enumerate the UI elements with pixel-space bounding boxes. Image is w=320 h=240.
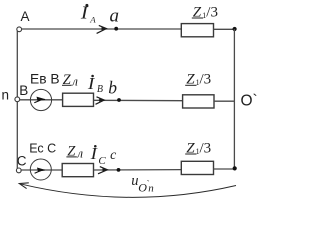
label Z1/3 (phase B): [185, 72, 211, 88]
node b (junction dot): [117, 98, 121, 102]
label Z1/3 (phase C): [185, 140, 211, 156]
resistor Z1/3 (phase C): [181, 161, 213, 174]
label İB: [87, 74, 103, 95]
junction dot at bus top: [233, 27, 237, 31]
resistor Z1/3 (phase A): [181, 24, 213, 37]
svg-text:n: n: [148, 183, 154, 195]
svg-text:л: л: [71, 74, 78, 89]
svg-text:B: B: [97, 84, 103, 95]
label Z1/3 (phase A): [192, 4, 218, 20]
svg-text:O`: O`: [241, 92, 258, 109]
wire: phase C from terminal to Zл box: [20, 169, 62, 171]
wire: phase C from Zл to Z1/3: [94, 169, 182, 171]
terminal C: [16, 168, 21, 173]
svg-text:/3: /3: [200, 72, 212, 88]
svg-text:A: A: [89, 14, 96, 24]
node a (junction dot): [114, 27, 118, 31]
svg-text:A: A: [21, 9, 30, 24]
label uO'n: [131, 173, 154, 195]
wire from Z1/3 phase B to bus: [214, 100, 234, 102]
resistor Z1/3 (phase B): [183, 95, 214, 108]
svg-text:л: л: [76, 146, 83, 161]
label İA: [80, 3, 97, 25]
svg-text:B: B: [19, 83, 28, 98]
node c (junction dot): [117, 168, 121, 172]
wire: phase B from Zл to Z1/3: [94, 99, 183, 101]
svg-text:Ес C: Ес C: [29, 141, 56, 155]
svg-text:Ев B: Ев B: [30, 72, 60, 87]
current arrow İB on wire: [96, 97, 105, 105]
EMF source EC (circle with arrow): [30, 159, 51, 180]
svg-text:C: C: [17, 153, 27, 168]
resistor Zл (phase C): [62, 164, 93, 177]
wire from Z1/3 phase A to bus: [214, 28, 235, 30]
current arrow İC on wire: [98, 167, 107, 174]
svg-text:a: a: [110, 5, 120, 26]
svg-text:/3: /3: [206, 4, 218, 20]
svg-text:/3: /3: [200, 140, 212, 156]
svg-text:n: n: [2, 88, 10, 103]
wire: right bus O' (vertical): [233, 29, 235, 169]
wire from Z1/3 phase C to bus: [214, 168, 235, 170]
wire: phase B from terminal to Zл box: [20, 99, 63, 101]
svg-text:b: b: [108, 78, 117, 98]
EMF source EB (circle with arrow): [30, 89, 51, 110]
junction dot at bus bottom: [233, 166, 237, 170]
label Zл (phase C): [66, 144, 83, 161]
terminal A: [17, 27, 22, 32]
wire: left neutral line n (vertical): [16, 31, 18, 169]
resistor Zл (phase B): [63, 93, 94, 106]
current arrow IA on wire: [97, 25, 107, 33]
wire: phase A from terminal A to resistor: [22, 28, 181, 30]
svg-text:C: C: [98, 155, 106, 167]
label Zл (phase B): [62, 72, 78, 88]
label İC: [89, 144, 106, 167]
terminal B: [15, 97, 20, 102]
svg-text:c: c: [110, 147, 116, 162]
voltage arrow uO'n (curved, arrowhead at left): [19, 183, 236, 198]
